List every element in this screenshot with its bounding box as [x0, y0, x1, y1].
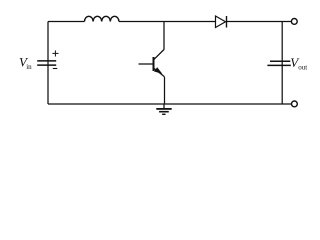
minus sign: [53, 68, 58, 70]
battery Vin plates: [37, 61, 56, 65]
wire left rail: [47, 22, 49, 105]
svg-text:in: in: [26, 63, 32, 71]
plus sign: [52, 50, 58, 56]
wire right branch: [281, 22, 283, 105]
svg-text:out: out: [298, 64, 307, 72]
wire inductor to diode: [119, 21, 216, 23]
terminal top-right: [291, 19, 297, 25]
inductor L1: [85, 16, 119, 21]
wire emitter drop: [164, 77, 166, 104]
wire top-left segment: [48, 21, 85, 23]
diode D1: [216, 16, 227, 28]
capacitor C1 plates: [267, 61, 290, 65]
wire bottom rail: [48, 103, 291, 105]
wire collector drop: [163, 22, 165, 50]
ground: [156, 104, 171, 114]
terminal bottom-right: [292, 101, 298, 107]
transistor Q1: [139, 50, 165, 77]
wire diode to right corner: [227, 21, 292, 23]
